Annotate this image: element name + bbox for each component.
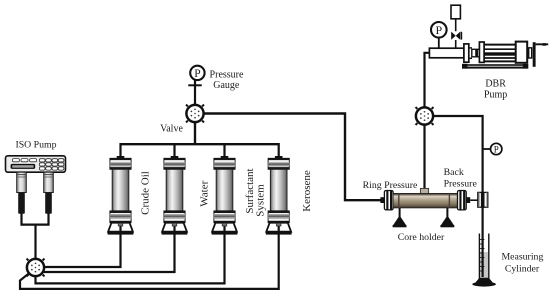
accumulator kerosene xyxy=(266,156,292,235)
measuring cylinder xyxy=(472,234,496,287)
wire: manifold riser to valve V2 xyxy=(194,123,196,146)
wire: valve V1 bottom to surfactant line xyxy=(36,224,225,283)
wire: pump heads bracket xyxy=(22,214,49,225)
accumulator surfactant xyxy=(212,156,238,235)
manifold stub crude oil xyxy=(119,143,121,157)
DBR pump flange 2 xyxy=(479,42,484,62)
ISO pump panel xyxy=(6,156,66,172)
manifold stub water xyxy=(173,144,175,157)
accumulator water xyxy=(162,156,188,235)
svg-text:Water: Water xyxy=(198,180,210,206)
manifold stub surfactant xyxy=(223,144,225,157)
svg-text:Pressure: Pressure xyxy=(444,178,478,189)
core holder leg left xyxy=(393,208,407,227)
svg-text:ISO Pump: ISO Pump xyxy=(15,139,56,150)
wire: ISO pump to valve V1 xyxy=(34,225,36,260)
valve V3 (core holder valve) xyxy=(416,103,434,129)
valve V2 (manifold valve) xyxy=(186,101,204,127)
svg-text:DBR: DBR xyxy=(485,79,506,90)
pressure gauge PG3 stub xyxy=(483,148,491,150)
pipe fitting tick xyxy=(188,84,201,86)
core holder left flange xyxy=(384,191,393,210)
wire: valve V3 to DBR pump xyxy=(425,53,430,107)
pressure gauge PG1 xyxy=(190,66,204,80)
DBR pump base xyxy=(462,64,528,69)
wire: valve V2 to pressure gauge xyxy=(194,80,196,105)
wire: valve V1 to water line xyxy=(44,224,175,272)
svg-text:Back: Back xyxy=(444,167,464,178)
core holder left nub xyxy=(380,197,384,203)
svg-text:Crude Oil: Crude Oil xyxy=(139,171,151,215)
wire: valve V3 to back pressure line xyxy=(433,116,482,193)
svg-text:Measuring: Measuring xyxy=(501,252,543,263)
svg-text:Kerosene: Kerosene xyxy=(301,170,313,212)
manifold wire xyxy=(121,143,279,145)
DBR pump crank disc xyxy=(533,42,536,67)
DBR pump flange 1 xyxy=(464,44,469,62)
svg-text:Core holder: Core holder xyxy=(398,232,445,243)
DBR pump motor block xyxy=(516,42,528,63)
wire: core holder to back pressure regulator xyxy=(470,199,478,201)
core holder leg right xyxy=(440,208,454,227)
DBR reservoir stem xyxy=(455,19,457,32)
svg-text:P: P xyxy=(435,23,442,37)
svg-text:Cylinder: Cylinder xyxy=(505,263,540,274)
DBR reservoir xyxy=(451,5,460,19)
core holder body xyxy=(393,193,457,208)
DBR pump piston rod xyxy=(484,52,516,55)
wire: valve V2 to core holder feed xyxy=(204,114,381,201)
svg-text:P: P xyxy=(494,144,499,154)
svg-text:P: P xyxy=(194,68,200,80)
pressure gauge PG3 xyxy=(491,143,502,154)
wire: valve V1 to crude oil line xyxy=(44,224,121,267)
DBR pump connector rails xyxy=(469,48,472,58)
valve V1 (ISO pump valve) xyxy=(27,255,45,281)
wire: back pressure regulator to measuring cylinder xyxy=(482,207,484,277)
DBR pump piston box xyxy=(472,49,480,57)
ISO pump head left xyxy=(17,172,27,214)
DBR pump crank coupler xyxy=(529,48,532,58)
DBR pump barrel xyxy=(429,48,464,58)
back pressure regulator xyxy=(478,192,488,207)
svg-text:Gauge: Gauge xyxy=(213,80,240,91)
DBR pump tie rods xyxy=(484,45,516,62)
svg-text:Ring Pressure: Ring Pressure xyxy=(363,180,418,191)
svg-text:Valve: Valve xyxy=(160,124,183,135)
DBR bowtie valve xyxy=(451,32,461,49)
ISO pump head right xyxy=(44,172,54,214)
core holder right flange xyxy=(458,191,467,210)
core holder right nub xyxy=(466,197,470,203)
svg-text:Pump: Pump xyxy=(484,90,507,101)
wire: valve V1 to kerosene line xyxy=(20,224,279,289)
svg-text:System: System xyxy=(255,184,267,217)
svg-text:Pressure: Pressure xyxy=(210,70,244,81)
DBR pump pressure gauge PG2 xyxy=(431,22,447,48)
manifold stub kerosene xyxy=(278,143,280,157)
accumulator crude oil xyxy=(108,156,134,235)
core holder port tab xyxy=(420,188,428,193)
DBR pump handle xyxy=(536,43,549,46)
wire: valve V3 to core holder port xyxy=(423,125,425,189)
